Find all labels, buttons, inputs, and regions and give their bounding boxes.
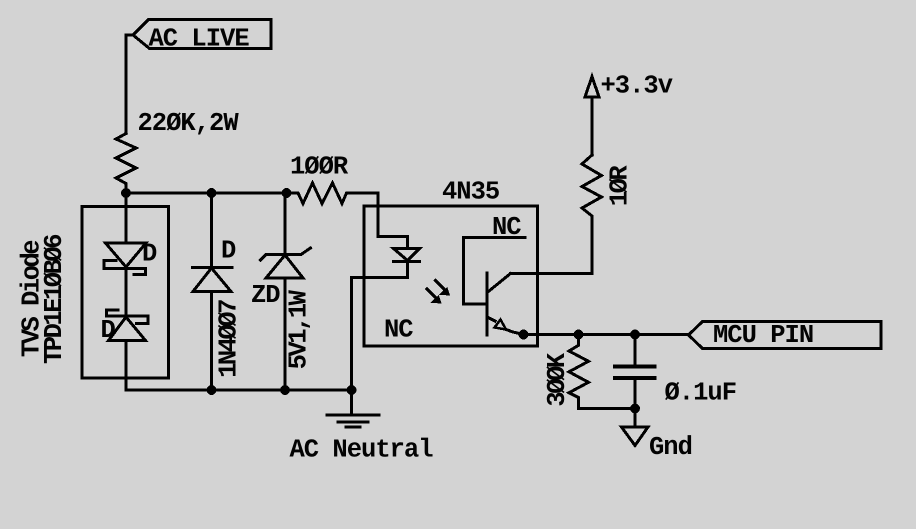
svg-text:AC LIVE: AC LIVE — [149, 25, 250, 54]
svg-text:NC: NC — [384, 316, 413, 345]
collector wire to 10R — [511, 272, 593, 275]
wire between TVS zeners — [125, 269, 128, 317]
junction dot at zener top — [282, 188, 292, 198]
power symbol +3.3v — [585, 77, 599, 156]
junction dot cap bottom — [630, 404, 640, 414]
svg-text:4N35: 4N35 — [442, 178, 499, 207]
wire 100R to opto LED — [351, 193, 408, 237]
junction dot 1N4007 bottom — [207, 385, 217, 395]
TVS zener D1 (pointing down) — [104, 243, 146, 275]
wire 300K bottom to cap bottom — [579, 407, 636, 410]
resistor 220K,2W — [116, 134, 136, 194]
AC Neutral earth ground symbol — [327, 390, 379, 427]
light arrow 2 — [427, 289, 442, 304]
opto transistor base NC pin — [464, 238, 526, 305]
svg-text:1ØR: 1ØR — [606, 165, 635, 207]
svg-text:3ØØK: 3ØØK — [543, 352, 572, 406]
opto-coupler U1 4N35 box — [364, 206, 538, 346]
svg-text:1N4ØØ7: 1N4ØØ7 — [215, 300, 244, 378]
svg-text:TPD1E1ØBØ6: TPD1E1ØBØ6 — [40, 235, 69, 364]
resistor 10R — [582, 155, 602, 274]
svg-text:NC: NC — [492, 213, 521, 242]
opto phototransistor — [487, 273, 524, 335]
junction dot zener bottom — [280, 385, 290, 395]
svg-text:D: D — [142, 240, 157, 269]
wire from AC LIVE to R 220K — [126, 35, 133, 134]
svg-text:Gnd: Gnd — [649, 433, 692, 462]
junction dot cap top — [630, 330, 640, 340]
svg-text:Ø.1uF: Ø.1uF — [665, 379, 737, 408]
ground symbol Gnd — [622, 409, 649, 446]
svg-text:D: D — [221, 237, 236, 266]
diode D 1N4007 — [193, 193, 233, 390]
svg-text:MCU PIN: MCU PIN — [713, 321, 813, 350]
net label MCU PIN flag — [689, 322, 882, 349]
top bus wire — [126, 192, 295, 195]
svg-text:22ØK,2W: 22ØK,2W — [138, 109, 240, 138]
opto LED — [394, 237, 420, 278]
svg-text:D: D — [101, 316, 116, 345]
junction dot at 220K/TVS — [121, 188, 131, 198]
resistor 300K — [569, 335, 589, 409]
wire LED cathode to ground bus — [352, 278, 408, 391]
svg-text:ZD: ZD — [251, 281, 280, 310]
net label AC LIVE flag — [133, 20, 271, 49]
junction dot at 1N4007 top — [207, 188, 217, 198]
wire top bus into TVS — [125, 193, 128, 243]
TVS box — [82, 207, 169, 379]
wire TVS to bottom bus — [126, 341, 212, 391]
zener ZD 5V1,1W — [261, 193, 311, 390]
junction dot emitter — [519, 330, 529, 340]
emitter output wire to MCU PIN — [524, 333, 689, 336]
junction dot 300K top — [574, 330, 584, 340]
svg-text:5V1,1W: 5V1,1W — [285, 289, 314, 369]
bottom bus wire — [212, 389, 352, 392]
svg-text:AC Neutral: AC Neutral — [290, 436, 434, 465]
svg-text:1ØØR: 1ØØR — [290, 153, 349, 182]
resistor 100R — [287, 183, 351, 204]
junction dot at ground — [347, 385, 357, 395]
TVS zener D2 (pointing up) — [107, 310, 149, 341]
light arrow 1 — [436, 281, 451, 296]
capacitor 0.1uF — [615, 335, 655, 409]
svg-text:+3.3v: +3.3v — [601, 72, 673, 101]
